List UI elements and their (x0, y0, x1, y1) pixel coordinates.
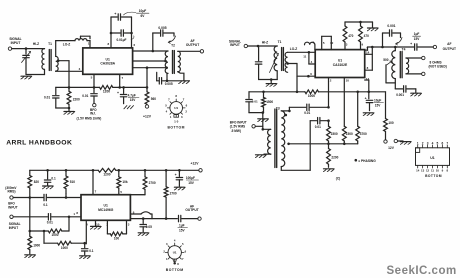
label 100 C (388, 121, 393, 125)
svg-text:2: 2 (185, 110, 187, 114)
op-amp U1 CA3102E box (315, 50, 365, 78)
svg-text:3: 3 (79, 67, 81, 71)
node AF x382 C (381, 46, 384, 49)
svg-text:6V: 6V (141, 14, 146, 18)
wire supply rail B right (116, 169, 199, 171)
svg-text:U1: U1 (104, 204, 108, 208)
svg-text:INPUT: INPUT (8, 205, 18, 209)
svg-text:T1: T1 (48, 42, 52, 46)
svg-text:(1.5V RMS 2mW): (1.5V RMS 2mW) (77, 116, 102, 120)
svg-text:5: 5 (120, 190, 122, 194)
svg-text:1000: 1000 (52, 233, 59, 237)
label LO-Z A (63, 43, 71, 47)
label 1500 second C (346, 132, 353, 136)
svg-text:CA3102E: CA3102E (333, 63, 348, 67)
U1 DIP package outline C (416, 145, 450, 168)
wire BFO line left (13, 197, 43, 199)
label 2700 second B (170, 192, 177, 196)
label AF OUTPUT A (186, 39, 199, 47)
wire 2200 bottom (68, 104, 70, 111)
resistor 1500 first C (327, 121, 331, 144)
package B pin digits (163, 238, 186, 260)
pin 3 label C (346, 42, 348, 46)
svg-text:U1: U1 (338, 58, 342, 62)
tap dot T1 secondary C (286, 62, 289, 65)
svg-text:1: 1 (417, 141, 419, 145)
svg-text:100μF: 100μF (186, 176, 195, 180)
resistor 1500 second C (342, 126, 346, 144)
U1 package outline bottom-view B (165, 243, 184, 262)
terminal 8ohm bottom C (422, 72, 425, 75)
svg-text:4: 4 (432, 141, 434, 145)
ground 2200 A (64, 112, 75, 115)
svg-text:11: 11 (431, 169, 434, 173)
wire 2200 top (68, 87, 70, 91)
svg-text:14: 14 (366, 50, 370, 54)
svg-text:100: 100 (114, 236, 119, 240)
svg-text:T4: T4 (402, 47, 406, 51)
slug arrow T4 C (396, 38, 402, 46)
wire 500 branch C (386, 65, 395, 83)
pin 7 label A (122, 76, 124, 80)
resistor 470 first C (343, 22, 347, 50)
pin 3 label B (128, 222, 130, 226)
resistor 2200 A (67, 91, 71, 104)
pin 7 stub A (119, 74, 121, 87)
pin 1 label C (313, 41, 315, 45)
ground input C (266, 80, 277, 87)
capacitor 0.1 BFO coupling B (43, 194, 48, 207)
terminal +12V A (145, 105, 148, 108)
wire input C (248, 45, 278, 47)
svg-text:1: 1 (166, 257, 168, 261)
capacitor input C (255, 46, 277, 80)
svg-text:T2: T2 (171, 44, 175, 48)
pin 8 label B (76, 211, 78, 215)
svg-text:10μF: 10μF (374, 99, 381, 103)
svg-text:15V: 15V (414, 37, 420, 41)
node 2700b top B (165, 169, 168, 172)
node rail A x94 (93, 86, 96, 89)
label 0.01 left C (252, 99, 258, 103)
svg-text:2700: 2700 (170, 192, 177, 196)
label 1000 upper B (52, 233, 59, 237)
label 0.01 bypass A (44, 96, 50, 100)
resistor 1500 BFO-C (262, 92, 266, 113)
wire supply rail B left (30, 169, 98, 171)
U1 CA3102E label (333, 58, 348, 66)
svg-text:1500: 1500 (346, 132, 353, 136)
label HI-Z A (33, 42, 39, 46)
node BFO-C junction (262, 128, 265, 131)
capacitor 0.001 bottom C (395, 86, 416, 93)
pin 10 label C (346, 78, 350, 82)
pin 2 stub C (328, 78, 330, 108)
wire 8ohm top C (406, 57, 422, 59)
pin 12 label C (330, 41, 334, 45)
label 100 B (114, 236, 119, 240)
node 0.1 top B (46, 169, 49, 172)
pin 10 label B (96, 222, 100, 226)
svg-text:2700: 2700 (149, 181, 156, 185)
svg-text:10k: 10k (122, 180, 127, 184)
svg-text:510: 510 (70, 180, 75, 184)
svg-text:10μF: 10μF (139, 9, 147, 13)
wire T1 secondary bottom to pin 3 (56, 70, 83, 72)
svg-text:820: 820 (34, 180, 39, 184)
label 2200 A (73, 97, 80, 101)
label 1000 lower B (61, 246, 68, 250)
transformer T3 secondary C (281, 111, 284, 167)
svg-text:15V: 15V (375, 103, 381, 107)
svg-text:4.7μF: 4.7μF (128, 93, 136, 97)
svg-text:INPUT: INPUT (9, 226, 19, 230)
label 100uF 15V B (186, 176, 199, 185)
tap dot T1 secondary A (57, 59, 60, 62)
svg-text:+: + (175, 173, 177, 177)
label 8 OHMS C (429, 61, 447, 69)
svg-text:6: 6 (185, 249, 187, 253)
svg-text:+: + (365, 96, 367, 100)
svg-text:8: 8 (177, 262, 179, 266)
node row x328 C (327, 143, 330, 146)
node pin11 riser C (308, 51, 311, 54)
svg-text:BOTTOM: BOTTOM (167, 126, 184, 130)
svg-text:5: 5 (182, 242, 184, 246)
wire pin 8 stub to cap combo (110, 17, 112, 48)
U1 MC1496G label (98, 204, 114, 212)
wire supply rail C right (319, 91, 386, 93)
package B label BOTTOM (166, 268, 184, 272)
DIP bottom pin numbers (416, 169, 448, 173)
wire T2 secondary to AF out (178, 50, 200, 52)
label AF OUTPUT B (185, 204, 198, 212)
label 10uF 15V C (374, 99, 384, 108)
label T1 A (48, 42, 52, 46)
U1 package outline bottom-view A (167, 99, 185, 117)
svg-text:4: 4 (174, 238, 176, 242)
svg-text:1500: 1500 (331, 132, 338, 136)
capacitor 0.01 signal coupling B (47, 214, 53, 225)
svg-text:8: 8 (76, 211, 78, 215)
label 1.5V RMS 2mW (77, 116, 102, 120)
svg-text:0.05: 0.05 (146, 225, 152, 229)
pin 8 label A (108, 42, 110, 46)
wire supply rail A right (113, 86, 147, 88)
node cap combo right (130, 32, 133, 35)
svg-text:HI-Z: HI-Z (262, 40, 268, 44)
terminal AF output C (433, 45, 436, 48)
capacitor 0.05 pin3 B (140, 219, 146, 232)
pin 14 label C (366, 50, 370, 54)
node pin7 rail B (92, 169, 95, 172)
terminal BFO input C (252, 125, 255, 128)
terminal signal input B (10, 215, 13, 218)
svg-text:5: 5 (323, 41, 325, 45)
wire BFO-C node down (262, 113, 264, 130)
capacitor 0.1 pin4 B (82, 243, 88, 255)
resistor 820 B (28, 170, 32, 188)
resistor 1000 upper B (30, 217, 69, 233)
svg-text:3: 3 (181, 115, 183, 119)
node AF x166 B (165, 217, 168, 220)
package A label 10 (174, 119, 179, 123)
signal input label (circuit A) (9, 37, 21, 45)
svg-text:U1: U1 (174, 106, 178, 110)
ground 4.7uF A (124, 106, 134, 109)
svg-text:11: 11 (303, 54, 306, 58)
terminal 8ohm top C (422, 56, 425, 59)
label 510 B (70, 180, 75, 184)
svg-text:1200: 1200 (103, 90, 110, 94)
U1 package label A (174, 106, 178, 110)
pin 1 label A (88, 42, 90, 46)
pin 2 label C (330, 78, 332, 82)
label 560 A (151, 97, 156, 101)
svg-text:U1: U1 (430, 156, 434, 160)
svg-text:CA3028A: CA3028A (100, 62, 115, 66)
capacitor 1uF output C (410, 42, 433, 50)
node rail A x69 (68, 86, 71, 89)
label 1200 B (103, 172, 110, 176)
svg-text:500: 500 (383, 58, 388, 62)
node pin4 junction B (83, 242, 86, 245)
label SIGNAL INPUT B (9, 222, 21, 230)
terminal +12V B (199, 169, 202, 172)
label 4700 C (360, 132, 367, 136)
label 820 B (34, 180, 39, 184)
svg-text:RMS): RMS) (8, 190, 16, 194)
svg-text:15V: 15V (179, 228, 185, 232)
transformer T4 core C (400, 52, 402, 78)
package A label BOTTOM (167, 126, 184, 130)
pin 7 label C (366, 46, 368, 50)
label 0.01 second C (315, 125, 321, 129)
pin 5 stub A (93, 74, 95, 87)
phasing legend C (355, 159, 377, 163)
wire BFO-C terminal (255, 125, 262, 127)
package B key tab (173, 259, 179, 266)
resistor 10k B (117, 170, 121, 194)
node rail C x357 (356, 91, 359, 94)
pin 5 label C (323, 41, 325, 45)
label T3 C (276, 106, 280, 110)
svg-text:7: 7 (183, 98, 185, 102)
chassis ground BFO-C (258, 119, 269, 122)
label T4 C (402, 47, 406, 51)
capacitor 0.01 BFO-C bypass (246, 92, 263, 113)
wire U1 to T2 tap (133, 60, 166, 62)
wire tap to rail C (288, 64, 297, 92)
svg-text:0.005: 0.005 (165, 82, 173, 86)
wire hop arcs to pin 1 (75, 39, 90, 48)
pin 1 label B (73, 212, 75, 216)
wire box corner jog B (130, 194, 144, 196)
svg-text:9: 9 (442, 169, 444, 173)
terminal 12V return C (394, 139, 397, 142)
DIP label BOTTOM C (425, 174, 442, 178)
ground 1000 B (25, 255, 36, 258)
svg-text:13: 13 (366, 77, 370, 81)
transformer T2 core A (173, 51, 175, 74)
label 0.005 bottom A (165, 82, 173, 86)
svg-text:INJ.: INJ. (90, 111, 96, 115)
svg-text:MC1496G: MC1496G (98, 208, 114, 212)
resistor 2200 C (327, 144, 331, 168)
svg-text:15V: 15V (188, 181, 194, 185)
wire signal line left (13, 216, 47, 218)
wire BFO-C to T3 primary (263, 128, 271, 130)
node 10k top B (118, 169, 121, 172)
svg-text:2200: 2200 (331, 156, 338, 160)
DIP top pin numbers (417, 141, 449, 145)
svg-text:0.01μF: 0.01μF (117, 38, 127, 42)
label 1200 A (103, 90, 110, 94)
pot 500 arrow C (387, 61, 392, 65)
node AF x372 C (371, 46, 374, 49)
wire T1 sec top to pin 11 (288, 51, 316, 53)
pin 4 stub B (85, 220, 87, 244)
op-amp U1 MC1496G box (81, 195, 130, 221)
node rail C x297 (296, 91, 299, 94)
label 1000 vertical B (33, 243, 40, 247)
svg-text:AF: AF (447, 42, 451, 46)
capacitor 0.01 BFO A (91, 87, 97, 103)
node x328 y120 C (327, 119, 330, 122)
svg-text:7: 7 (446, 141, 448, 145)
label T2 A (171, 44, 175, 48)
transformer T1 core C (282, 48, 284, 71)
svg-text:BOTTOM: BOTTOM (166, 268, 184, 272)
pin 3 label A (79, 67, 81, 71)
svg-text:INPUT: INPUT (230, 43, 240, 47)
transformer T1 secondary C (285, 52, 288, 72)
label (C) (336, 176, 341, 180)
ground 2200 C (323, 169, 334, 172)
node 2200 bottom (68, 107, 71, 110)
node BFO-C bypass (262, 111, 265, 114)
transformer T4 secondary C (406, 58, 409, 74)
capacitor 0.01 second C (310, 118, 328, 124)
wire x310 drop C (309, 121, 311, 171)
node T2 lower tap A (165, 66, 168, 69)
svg-text:12V: 12V (388, 146, 395, 150)
terminal 12V C (384, 140, 387, 143)
label BFO INPUT C (230, 120, 247, 132)
capacitor 0.005 bottom A (157, 72, 190, 84)
label +12V B (191, 162, 200, 166)
resistor 1200 A (100, 86, 113, 90)
node 1000b left B (43, 230, 46, 233)
node riser junction A (146, 66, 149, 69)
label 1000 C (308, 94, 315, 98)
U1 CA3028A label (100, 57, 115, 65)
ground 0.1 pin4 B (80, 256, 91, 259)
svg-text:9: 9 (362, 42, 364, 46)
wire T4 primary top C (394, 47, 396, 51)
capacitor 10uF C (365, 92, 373, 111)
label +12V A (143, 114, 152, 118)
wire supply rail C left (249, 91, 305, 93)
terminal AF output B (198, 217, 201, 220)
label 1uF 15V C (413, 32, 421, 41)
svg-text:+12V: +12V (143, 114, 152, 118)
node signal x69 (68, 216, 71, 219)
node AF x143 B (142, 217, 145, 220)
pin 13 jog C (365, 80, 369, 92)
svg-text:0.001: 0.001 (387, 24, 395, 28)
transformer T1 secondary A (56, 56, 58, 71)
wire AF line C (365, 47, 415, 50)
node input A (25, 47, 28, 50)
svg-text:(NOT USED): (NOT USED) (429, 65, 447, 69)
wire pin 14 riser C (365, 47, 373, 70)
node row x344 C (343, 143, 346, 146)
label 0.01uF A (117, 36, 135, 42)
wire pin 4 riser C (309, 52, 315, 64)
svg-text:T1: T1 (278, 40, 282, 44)
terminal BFO inj A (93, 103, 96, 106)
wire T1 primary bottom (276, 71, 278, 80)
label 0.001 bottom C (396, 93, 404, 97)
wire supply rail A left (69, 86, 100, 88)
svg-text:100: 100 (388, 121, 393, 125)
capacitor 0.01 bypass A (53, 87, 69, 108)
svg-text:1500: 1500 (266, 100, 273, 104)
node BFO x66 (65, 196, 68, 199)
svg-text:LO-Z: LO-Z (63, 43, 71, 47)
label 1uF 15V B (178, 224, 188, 233)
resistor 470 second C (359, 22, 363, 50)
svg-text:0.01: 0.01 (252, 99, 258, 103)
svg-text:0.01: 0.01 (82, 94, 88, 98)
resistor 2700 first B (130, 170, 147, 194)
chassis ground 0.1 B (43, 186, 54, 189)
label 300mV RMS (5, 186, 17, 194)
svg-text:0.01: 0.01 (315, 125, 321, 129)
label 470 second C (364, 34, 369, 38)
capacitor 0.1 bypass B (44, 170, 50, 185)
label 500 C (383, 58, 388, 62)
transformer T3 primary C (268, 129, 271, 154)
wire top rail C (345, 21, 373, 23)
capacitor 0.001 top C (383, 30, 401, 47)
pin 6 label C (310, 72, 312, 76)
phase dot T3 top C (285, 114, 288, 117)
svg-text:6: 6 (186, 103, 188, 107)
svg-text:U1: U1 (173, 251, 177, 255)
svg-text:15V: 15V (130, 98, 136, 102)
svg-text:10: 10 (436, 169, 440, 173)
package A key tab (170, 115, 183, 119)
capacitor 0.01uF lower branch A (111, 30, 132, 36)
svg-text:1000: 1000 (308, 94, 315, 98)
svg-text:0.001: 0.001 (396, 93, 404, 97)
wire T3 primary bottom C (264, 153, 271, 155)
U1 DIP label C (430, 156, 434, 160)
chassis ground T3 C (255, 155, 266, 158)
label 0.1 pin4 B (89, 249, 94, 253)
jumper bridge pins 1-2 A (81, 36, 91, 39)
package A pin digits (165, 94, 187, 114)
resistor 1200 B (98, 168, 116, 172)
wire T1 secondary top to pin 1 (56, 41, 75, 57)
node 100uF top B (178, 169, 181, 172)
wire pins 5-12 top C (322, 36, 332, 49)
wire T2 secondary bottom down (178, 72, 184, 81)
label 0.01 first C (304, 111, 310, 115)
label 0.1 bypass B (51, 177, 56, 181)
